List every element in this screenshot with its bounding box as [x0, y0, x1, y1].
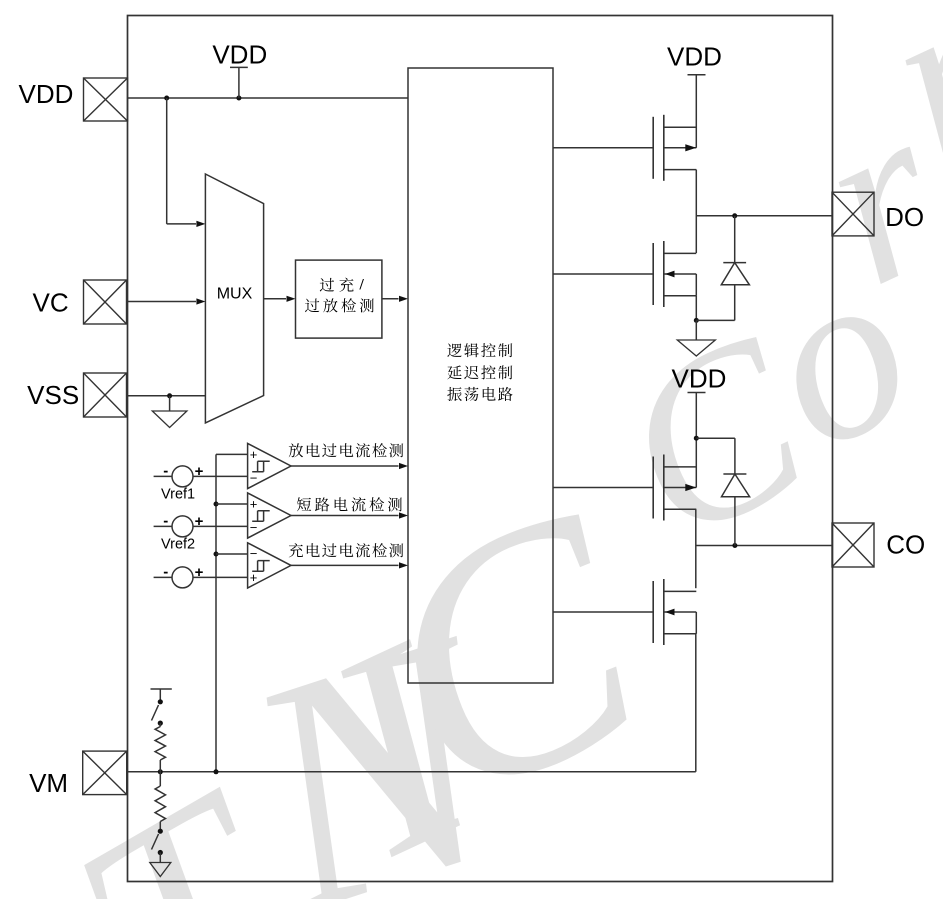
svg-text:-: -: [163, 563, 168, 580]
svg-text:-: -: [163, 462, 168, 479]
svg-text:VDD: VDD: [212, 40, 267, 70]
node VDD-diode2: [694, 436, 699, 441]
svg-text:+: +: [195, 564, 204, 581]
diode D2 body CO: [696, 437, 735, 439]
wire VM sense line: [215, 454, 217, 771]
wire Q3 source through CO node to Q4 drain: [695, 509, 697, 588]
ground Q2 source: [695, 320, 697, 340]
transistor Q1 PMOS DO: [652, 117, 654, 179]
svg-text:−: −: [250, 546, 258, 561]
wire VDD to MUX: [166, 98, 168, 224]
svg-text:+: +: [195, 513, 204, 530]
svg-text:VM: VM: [29, 768, 68, 798]
svg-text:VDD: VDD: [672, 364, 727, 394]
node VDD-tick: [236, 96, 241, 101]
svg-text:-: -: [163, 512, 168, 529]
wire gnd-diode1 anode: [696, 319, 734, 321]
power VDD tick Q1: [688, 74, 706, 76]
svg-text:Vref2: Vref2: [161, 537, 195, 553]
source Vref circle at 526.4: [154, 525, 172, 527]
ground VM chain: [159, 853, 161, 863]
svg-text:VC: VC: [33, 287, 69, 317]
ground VSS: [169, 396, 171, 411]
node Q2 gnd: [694, 318, 699, 323]
node CO-diode: [732, 543, 737, 548]
wire VDD to Q1: [695, 75, 697, 148]
switch S1: [158, 699, 163, 704]
source Vref circle at 476.4: [154, 475, 172, 477]
switch S2: [159, 822, 161, 830]
svg-text:VDD: VDD: [19, 79, 74, 109]
wire VC to MUX: [128, 301, 197, 303]
node VM-resistors: [158, 769, 163, 774]
wire R1 to VM: [159, 760, 161, 772]
MUX block: [205, 174, 263, 423]
terminal top bar: [151, 688, 172, 690]
diode D1 body DO: [734, 216, 736, 263]
wire Q4 source to VM: [695, 634, 697, 772]
power VDD top-left tick: [230, 66, 248, 68]
svg-text:+: +: [195, 463, 204, 480]
pad VDD: [84, 78, 128, 121]
node sense-comp2: [214, 502, 219, 507]
wire DO node: [696, 215, 832, 217]
wire comp2 out: [291, 515, 399, 517]
transistor Q3 PMOS CO: [652, 457, 654, 519]
resistor R2: [159, 772, 161, 786]
svg-text:CO: CO: [886, 529, 925, 559]
power VDD tick Q3: [688, 392, 706, 394]
label discharge overcurrent detect: [289, 443, 303, 457]
op-amp comparator short-circuit: [248, 493, 291, 538]
wire comp3 out: [291, 564, 399, 566]
svg-text:VSS: VSS: [27, 380, 79, 410]
transistor Q2 NMOS DO: [652, 243, 654, 305]
svg-text:−: −: [250, 520, 258, 535]
wire VSS to MUX: [128, 395, 206, 397]
svg-text:Vref1: Vref1: [161, 487, 195, 503]
wire VM rail: [127, 771, 696, 773]
wire VDD rail: [128, 97, 409, 99]
node VDD-branch: [164, 96, 169, 101]
wire MUX out: [264, 298, 286, 300]
svg-text:−: −: [250, 471, 258, 486]
transistor Q4 NMOS CO: [652, 581, 654, 643]
wire Q1 source to DO node: [695, 170, 697, 253]
svg-text:VDD: VDD: [667, 42, 722, 72]
node sense-comp3: [214, 552, 219, 557]
svg-text:/: /: [359, 276, 365, 293]
svg-text:DO: DO: [885, 202, 924, 232]
pad VM: [83, 751, 127, 795]
pad VC: [84, 280, 127, 324]
wire CO node: [696, 545, 832, 547]
wire VDD to Q3: [695, 393, 697, 488]
svg-text:+: +: [250, 447, 258, 462]
resistor R1: [155, 727, 165, 761]
op-amp comparator charge-OC: [248, 543, 291, 588]
node DO-diode: [732, 213, 737, 218]
label short-circuit current detect: [297, 497, 311, 511]
op-amp comparator discharge-OC: [248, 443, 291, 488]
block overcharge/overdischarge detect: [296, 260, 382, 338]
block logic/delay/oscillator: [408, 68, 553, 683]
label charge overcurrent detect: [289, 543, 303, 557]
svg-text:MUX: MUX: [217, 286, 253, 303]
node VSS-gnd: [167, 393, 172, 398]
source Vref circle at 577.4: [154, 576, 172, 578]
pad DO: [832, 192, 874, 236]
wire detect out: [382, 298, 399, 300]
IC boundary box: [128, 16, 833, 882]
wire Q2 source to ground: [695, 296, 697, 321]
svg-text:+: +: [250, 570, 258, 585]
svg-text:+: +: [250, 496, 258, 511]
pad VSS: [84, 373, 127, 417]
wire comp1 out: [291, 465, 399, 467]
node VM-sense: [214, 769, 219, 774]
pad CO: [832, 523, 874, 567]
